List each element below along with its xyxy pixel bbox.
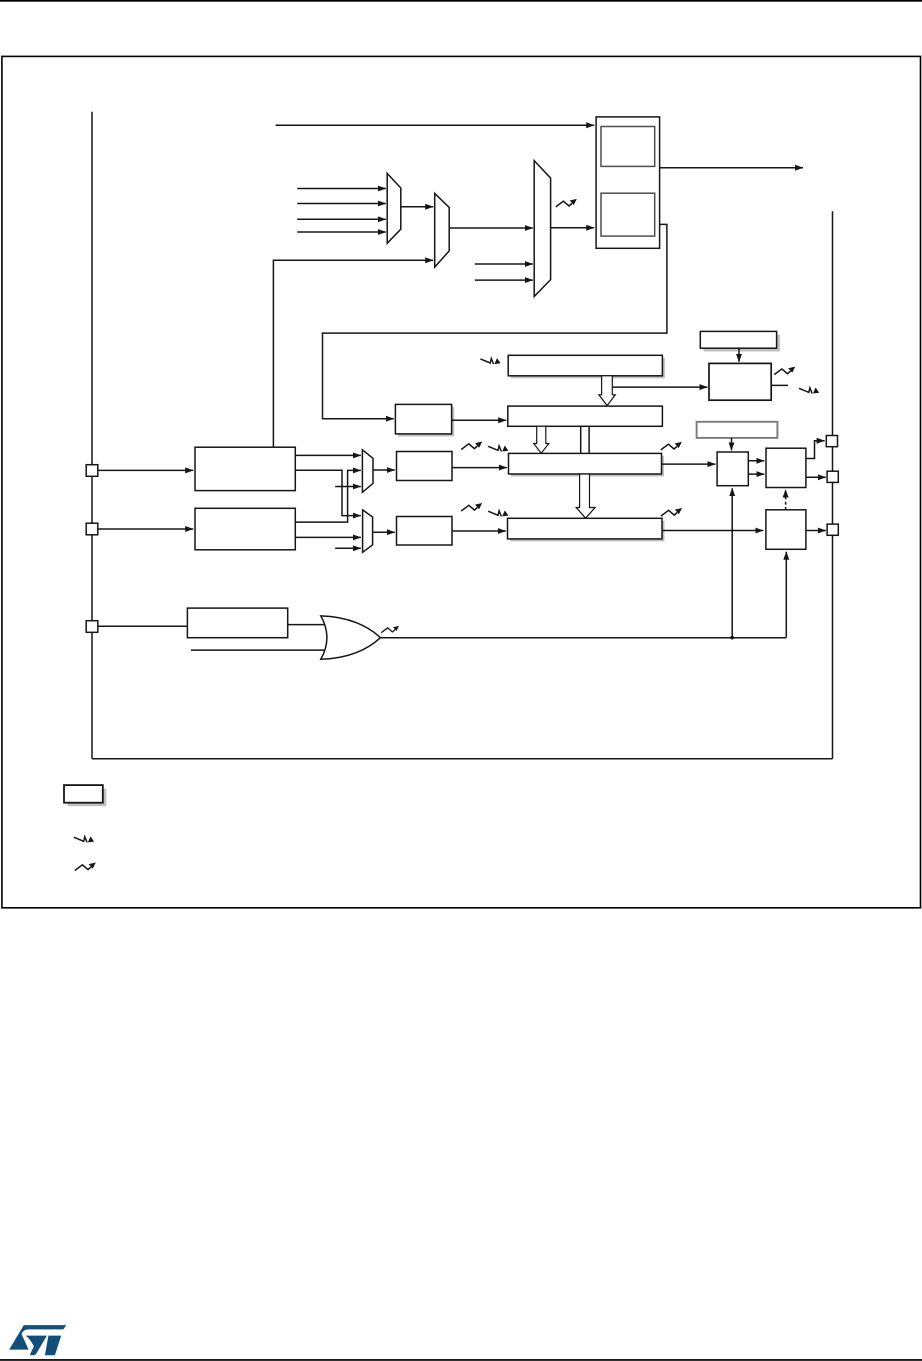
box IC1 prescaler <box>397 452 453 481</box>
wire BKIN pin to polarity selection <box>98 625 188 627</box>
pin TIMx_BKIN connector <box>86 621 98 633</box>
block arrow shadow reload to counter <box>534 426 549 453</box>
wire IC1 to prescaler1 <box>373 469 395 471</box>
wire TI2FP2 stub to TRGI mux <box>475 279 533 281</box>
wire IC2 to prescaler2 <box>373 531 395 533</box>
event glyph at TRGI <box>556 199 577 207</box>
pin OC1 connector <box>826 436 837 447</box>
wire OC1 elbow to pin OC1 <box>806 441 825 459</box>
wire TI2FP2 to mux2 <box>295 536 361 538</box>
wire CH1 pin to input filter 1 <box>98 469 193 471</box>
interrupt glyph capture left <box>488 510 508 516</box>
wire TRC stub to mux1 <box>335 486 361 488</box>
box capture/compare register <box>508 518 663 539</box>
wire trigger mux output to TRGI mux <box>449 227 533 229</box>
mux IC2 select <box>363 510 373 552</box>
wire dashed from output enable 2 up <box>785 490 787 510</box>
box shadow auto-reload register <box>508 406 663 426</box>
legend register box shadow <box>68 789 107 807</box>
box input filter 2 <box>195 508 295 550</box>
box TIMx_CCMR register shadow <box>704 335 780 352</box>
box output mode controller U3 <box>717 452 748 486</box>
mux trigger select <box>435 193 450 267</box>
wire ITR2 input <box>297 218 386 220</box>
wire CCMR to slave mode controller <box>738 348 740 362</box>
pin OC2 connector <box>827 524 838 535</box>
wire UEV to slave mode controller <box>612 386 707 388</box>
box trigger controller U1 <box>596 117 660 248</box>
box prescaler PSC shadow <box>398 407 454 437</box>
wire right output rail <box>832 211 834 759</box>
wire IC1PS to capture register <box>452 467 507 469</box>
interrupt glyph at auto-reload <box>480 358 500 364</box>
pin TIMx_CH1 connector <box>86 465 98 477</box>
box counter CNT shadow <box>511 456 664 477</box>
mux TRGI select <box>534 161 550 297</box>
wire IC2PS to capture register <box>452 530 506 532</box>
wire CH2 pin to input filter 2 <box>98 528 193 530</box>
wire TRC stub to mux2 <box>335 547 361 549</box>
wire BRK line up to output enable 2 <box>785 552 787 638</box>
wire clock failure stub to OR gate <box>191 649 326 651</box>
wire polarity to OR gate <box>288 624 326 626</box>
legend event glyph <box>75 863 96 871</box>
box capture/compare preload register <box>697 422 778 438</box>
box output enable circuit U4 <box>766 448 806 487</box>
wire left input rail <box>91 112 93 759</box>
box auto-reload register shadow <box>511 358 665 379</box>
event glyph break <box>381 626 399 633</box>
box slave mode controller U2 <box>709 363 771 400</box>
wire TI1FP1 to mux1 <box>295 454 361 456</box>
wire ITR1 input <box>297 203 386 205</box>
event glyph counter right <box>661 442 682 450</box>
mux IC1 select <box>362 450 373 493</box>
wire mux ITR output to trigger mux <box>401 206 433 208</box>
wire bottom rail <box>92 758 833 760</box>
gate OR break <box>321 616 381 659</box>
wire TRGI to trigger controller <box>551 227 595 229</box>
bus shadow reload to counter <box>581 426 589 453</box>
figure frame <box>2 56 921 907</box>
legend interrupt glyph <box>74 836 94 842</box>
box slave mode sub-block <box>601 193 655 236</box>
wire preload to output stage <box>731 438 733 451</box>
event glyph slave mode controller <box>774 367 795 375</box>
wire BRK to output stages <box>380 637 786 639</box>
wire ETR input to trigger controller <box>276 124 595 126</box>
box auto-reload register <box>508 355 662 376</box>
event glyph capture right <box>661 508 682 516</box>
wire CK_PSC elbow from trigger controller to prescaler <box>323 224 667 418</box>
ST logo <box>9 1325 66 1355</box>
node BRK junction <box>730 636 734 640</box>
wire CK_CNT prescaler to counter <box>452 419 507 421</box>
interrupt glyph slave mode controller <box>799 388 819 394</box>
pin OC1N connector <box>827 471 838 482</box>
wire OC1REF to output enable <box>748 460 764 462</box>
pin TIMx_CH2 connector <box>86 523 98 535</box>
box counter CNT <box>509 453 662 474</box>
wire TI2FP1 cross up to mux1 <box>295 470 361 522</box>
mux ITR select <box>387 173 401 243</box>
page top rule <box>0 0 922 2</box>
wire BRK line up to output stage <box>731 488 733 637</box>
event glyph capture left <box>461 503 482 511</box>
wire TI1F_ED from input filter 1 up to trigger mux <box>273 260 433 447</box>
box prescaler PSC <box>395 404 451 434</box>
block arrow auto-reload to shadow register <box>599 376 615 406</box>
box reset/enable sub-block <box>601 127 655 167</box>
wire TI1FP1 stub to TRGI mux <box>475 263 533 265</box>
wire ITR0 input <box>297 188 386 190</box>
wire TRGO output <box>660 167 803 169</box>
wire ITR3 input <box>297 231 386 233</box>
box input filter 1 <box>195 447 295 490</box>
wire counter to output stage <box>662 463 716 465</box>
wire capture compare 2 to output enable <box>662 530 763 532</box>
box IC2 prescaler <box>397 517 453 546</box>
box TIMx_CCMR register <box>700 331 776 348</box>
interrupt glyph counter left <box>488 446 508 452</box>
page bottom rule <box>0 1359 922 1361</box>
box break polarity selection <box>187 608 287 638</box>
block arrow counter to capture/compare <box>576 474 595 518</box>
box output enable circuit U5 <box>766 510 806 550</box>
wire slave controller stub output <box>771 384 788 386</box>
wire OC2REF to output enable <box>748 473 764 475</box>
wire OC1N to pin <box>806 476 826 478</box>
wire OC2 to pin <box>806 530 826 532</box>
box capture/compare shadow <box>510 521 665 542</box>
legend register box <box>64 785 103 803</box>
wire TI1FP2 cross down to mux2 <box>295 470 361 515</box>
event glyph counter left <box>461 442 482 450</box>
